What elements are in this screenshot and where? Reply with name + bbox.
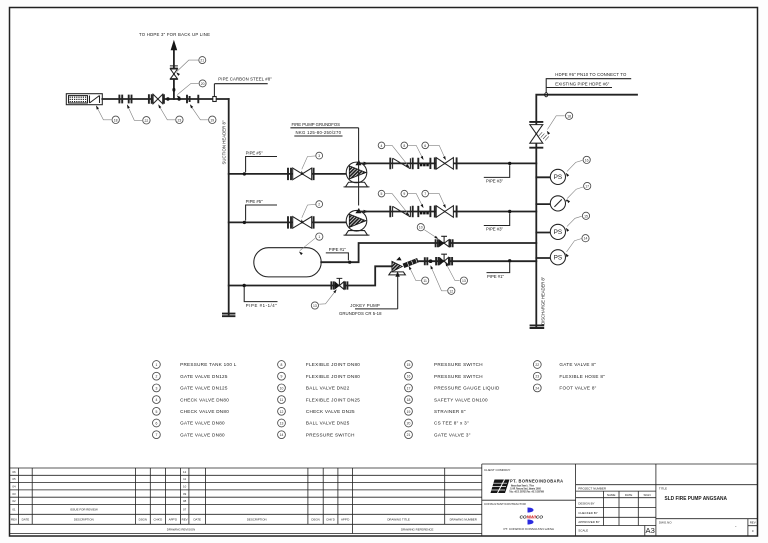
svg-text:7: 7 (155, 433, 157, 437)
blind flange bottom (222, 314, 235, 317)
svg-text:CHK'D: CHK'D (326, 518, 335, 522)
svg-text:CS TEE 8" x 3": CS TEE 8" x 3" (434, 421, 469, 426)
svg-text:CLIENT COMPANY: CLIENT COMPANY (484, 468, 510, 472)
svg-text:3: 3 (318, 154, 320, 158)
svg-text:5: 5 (155, 410, 157, 414)
flexible joint 8 (418, 158, 430, 169)
svg-text:6: 6 (155, 421, 157, 425)
label circle 12 (448, 287, 455, 294)
pipe jockey suction (229, 266, 391, 285)
junction dot (7)/header (508, 210, 511, 213)
svg-text:DWG.NO: DWG.NO (659, 521, 672, 525)
svg-text:DATE: DATE (625, 493, 633, 497)
pipe supply line (102, 98, 228, 100)
svg-text:HDPE #6" PN10 TO CONNECT TO: HDPE #6" PN10 TO CONNECT TO (555, 72, 627, 77)
coupling pair A (119, 95, 122, 104)
svg-text:09: 09 (183, 492, 187, 496)
union bars (187, 95, 198, 103)
legend item 24 (533, 384, 541, 392)
pipe discharge header (536, 95, 637, 327)
svg-text:PIPE #1": PIPE #1" (487, 274, 504, 279)
legend item 17 (405, 384, 413, 392)
legend item 15 (405, 361, 413, 369)
svg-text:GATE VALVE DN80: GATE VALVE DN80 (180, 421, 225, 426)
svg-text:CHECK VALVE DN25: CHECK VALVE DN25 (306, 409, 355, 414)
svg-text:GATE VALVE DN125: GATE VALVE DN125 (180, 386, 228, 391)
svg-text:13: 13 (313, 304, 317, 308)
svg-text:10: 10 (419, 226, 423, 230)
gate valve (supply) (149, 94, 164, 103)
svg-text:EXISTING PIPE HDPE #6": EXISTING PIPE HDPE #6" (555, 81, 609, 86)
label circle 4 (378, 142, 385, 149)
legend item 4 (153, 396, 161, 404)
svg-text:12: 12 (449, 289, 453, 293)
svg-text:PRESSURE SWITCH: PRESSURE SWITCH (434, 374, 483, 379)
flow arrows (3) (355, 160, 361, 165)
svg-text:PS: PS (554, 174, 563, 181)
svg-text:PRESSURE TANK 100 L: PRESSURE TANK 100 L (180, 362, 237, 367)
svg-text:5: 5 (381, 192, 383, 196)
legend item 11 (278, 396, 286, 404)
svg-text:11: 11 (280, 398, 284, 402)
svg-text:7: 7 (424, 192, 426, 196)
svg-text:Menara Karya Tower Lt. 7 Floor: Menara Karya Tower Lt. 7 Floor (511, 484, 534, 487)
svg-text:PIPE #3": PIPE #3" (486, 227, 503, 232)
svg-text:17: 17 (407, 386, 411, 390)
svg-text:DATE: DATE (22, 518, 30, 522)
svg-text:2: 2 (155, 375, 157, 379)
svg-text:DRAWING REFERENCE: DRAWING REFERENCE (401, 527, 434, 531)
label circle 6 (422, 142, 429, 149)
gate valve 21 (3in, vertical) (170, 66, 178, 79)
svg-text:FLEXIBLE JOINT DN25: FLEXIBLE JOINT DN25 (306, 397, 360, 402)
svg-text:22: 22 (535, 363, 539, 367)
legend item 7 (153, 431, 161, 439)
svg-text:SAFETY VALVE DN100: SAFETY VALVE DN100 (434, 397, 488, 402)
legend item 10 (278, 384, 286, 392)
svg-text:JOKEY PUMP: JOKEY PUMP (350, 303, 380, 308)
svg-text:24: 24 (535, 386, 539, 390)
svg-text:20: 20 (407, 421, 411, 425)
svg-text:12: 12 (183, 470, 187, 474)
svg-text:02: 02 (12, 499, 16, 503)
svg-text:PIPE #1": PIPE #1" (329, 247, 346, 252)
svg-text:SLD FIRE PUMP ANGSANA: SLD FIRE PUMP ANGSANA (665, 496, 728, 502)
svg-text:20: 20 (201, 82, 205, 86)
pressure switch 16 (536, 176, 550, 178)
label circle 3 (316, 152, 323, 159)
svg-text:05: 05 (12, 477, 16, 481)
label circle 11 (422, 277, 429, 284)
gate valve 3 (DN125) (288, 168, 314, 180)
svg-text:PRESSURE SWITCH: PRESSURE SWITCH (434, 362, 483, 367)
pipe suction line (2) (229, 221, 347, 223)
legend item 23 (533, 372, 541, 380)
title block right (482, 464, 758, 536)
svg-text:CHECK VALVE DN80: CHECK VALVE DN80 (180, 397, 229, 402)
coupling pair B (129, 95, 132, 104)
check valve 5 (390, 206, 412, 218)
svg-text:FIRE PUMP GRUNDFOS: FIRE PUMP GRUNDFOS (292, 122, 341, 127)
pressure tank 1 (254, 248, 321, 277)
label circle 10 (417, 224, 424, 231)
label circle 15 (582, 212, 589, 219)
gate valve 2 (DN125) (288, 216, 314, 228)
svg-text:14: 14 (584, 237, 588, 241)
svg-text:23: 23 (178, 118, 182, 122)
svg-text:PIPE CARBON STEEL #8": PIPE CARBON STEEL #8" (218, 77, 272, 82)
svg-text:TITLE: TITLE (659, 487, 667, 491)
pipe suction header riser (228, 99, 230, 315)
consultant logo CONWICO (528, 508, 534, 513)
svg-text:TO HDPE 3" FOR BACK UP LINE: TO HDPE 3" FOR BACK UP LINE (139, 32, 210, 37)
svg-text:6: 6 (424, 144, 426, 148)
svg-text:9: 9 (403, 192, 405, 196)
svg-text:CHK'D: CHK'D (154, 518, 163, 522)
svg-text:SIGN: SIGN (644, 493, 651, 497)
label circle 7 (422, 190, 429, 197)
junction oval top (545, 93, 548, 97)
svg-text:ISSUE FOR REVIEW: ISSUE FOR REVIEW (70, 508, 98, 512)
junction dot (6)/header (508, 162, 511, 165)
svg-text:DSGN: DSGN (311, 518, 319, 522)
svg-text:8: 8 (403, 144, 405, 148)
svg-text:DISCHARGE HEADER 8": DISCHARGE HEADER 8" (540, 276, 545, 324)
legend item 9 (278, 372, 286, 380)
svg-text:PT. BORNEOINDOBARA: PT. BORNEOINDOBARA (510, 479, 564, 484)
svg-text:07: 07 (183, 508, 187, 512)
svg-text:19: 19 (407, 410, 411, 414)
svg-text:PIPE #3": PIPE #3" (486, 179, 503, 184)
pressure gauge 17 (536, 203, 550, 205)
label circle 22 (143, 117, 150, 124)
svg-text:04: 04 (12, 485, 16, 489)
svg-text:REV: REV (11, 518, 17, 522)
svg-text:APP'D: APP'D (169, 518, 177, 522)
svg-text:01: 01 (12, 508, 16, 512)
svg-text:16: 16 (585, 158, 589, 162)
svg-text:06: 06 (12, 470, 16, 474)
pressure switch 15 (536, 232, 550, 234)
svg-text:18: 18 (114, 118, 118, 122)
svg-text:PT. CONWICO KONSULTAN wIKSA: PT. CONWICO KONSULTAN wIKSA (504, 527, 555, 531)
svg-text:2: 2 (318, 203, 320, 207)
ball valve 13 (jockey suction) (331, 281, 347, 289)
svg-text:PIPE #5": PIPE #5" (246, 199, 263, 204)
svg-text:GRUNDFOS CR 5-18: GRUNDFOS CR 5-18 (339, 311, 382, 316)
legend item 16 (405, 372, 413, 380)
svg-text:DESCRIPTION: DESCRIPTION (74, 518, 94, 522)
pipe backup branch 3in (173, 50, 175, 99)
label circle 21 (199, 57, 206, 64)
fire pump (2) (346, 210, 367, 231)
svg-text:CONSULTANT/CONTRACTOR: CONSULTANT/CONTRACTOR (484, 502, 527, 506)
client logo BIB (491, 480, 510, 494)
label circle 13c (460, 277, 467, 284)
pipe discharge line (5) (360, 211, 536, 213)
label circle 17 (584, 182, 591, 189)
svg-text:APPROVED BY: APPROVED BY (578, 520, 600, 524)
pipe suction line (3) (229, 173, 347, 175)
legend item 1 (153, 361, 161, 369)
svg-text:GATE VALVE 8": GATE VALVE 8" (559, 362, 596, 367)
check valve 12 (425, 257, 428, 265)
legend item 13 (278, 419, 286, 427)
svg-text:3: 3 (155, 386, 157, 390)
legend item 14 (278, 431, 286, 439)
svg-text:9: 9 (281, 375, 283, 379)
svg-text:11: 11 (183, 477, 186, 481)
svg-text:18: 18 (407, 398, 411, 402)
svg-text:PRESSURE SWITCH: PRESSURE SWITCH (306, 432, 355, 437)
flexible joint 11 (403, 258, 419, 268)
svg-text:17: 17 (585, 184, 589, 188)
svg-text:10: 10 (183, 485, 187, 489)
svg-text:4: 4 (381, 144, 383, 148)
svg-text:FLEXIBLE JOINT DN80: FLEXIBLE JOINT DN80 (306, 374, 360, 379)
legend item 2 (153, 372, 161, 380)
svg-text:10: 10 (280, 386, 284, 390)
svg-text:DRAWING REVISION: DRAWING REVISION (167, 527, 195, 531)
svg-text:21: 21 (200, 59, 204, 63)
svg-text:GATE VALVE DN80: GATE VALVE DN80 (180, 432, 225, 437)
svg-text:A3: A3 (646, 526, 655, 535)
svg-text:16: 16 (407, 375, 411, 379)
legend item 12 (278, 407, 286, 415)
svg-text:15: 15 (407, 363, 411, 367)
blind flange header bottom (530, 325, 545, 328)
svg-text:DATE: DATE (193, 518, 201, 522)
svg-text:Jl. HR. Rasuna Said, Jakarta 1: Jl. HR. Rasuna Said, Jakarta 12950 (510, 487, 542, 490)
label circle 23 (176, 116, 183, 123)
svg-text:15: 15 (584, 214, 588, 218)
svg-text:03: 03 (12, 492, 16, 496)
label circle 9 (401, 190, 408, 197)
svg-text:STRAINER 8": STRAINER 8" (434, 409, 466, 414)
svg-text:DESIGN BY: DESIGN BY (578, 501, 594, 505)
jockey pump (392, 261, 402, 271)
label circle 5 (378, 190, 385, 197)
svg-text:08: 08 (183, 499, 187, 503)
label circle 13a (311, 302, 318, 309)
svg-text:PS: PS (554, 229, 563, 236)
svg-text:1: 1 (318, 235, 320, 239)
revision table (10, 468, 482, 524)
label circle 20 (cs tee) (199, 80, 206, 87)
pipe tank outlet (321, 243, 536, 262)
flange to riser (pipe carbon steel) (213, 97, 216, 102)
svg-text:PIPE #5": PIPE #5" (246, 150, 263, 155)
gate valve 7 (434, 206, 436, 218)
legend item 21 (405, 431, 413, 439)
pipe jockey discharge (419, 260, 536, 262)
svg-text:DESCRIPTION: DESCRIPTION (247, 518, 267, 522)
flow arrows (2) (355, 208, 361, 213)
svg-text:CHECKED BY: CHECKED BY (578, 511, 598, 515)
svg-text:CHECK VALVE DN80: CHECK VALVE DN80 (180, 409, 229, 414)
ball valve 10 (436, 239, 453, 247)
label circle 19 (209, 116, 216, 123)
svg-text:23: 23 (535, 375, 539, 379)
svg-text:Telp: +62 21 2557621 Fax: +62: Telp: +62 21 2557621 Fax: +62 21 2557600 (509, 491, 544, 493)
svg-text:11: 11 (423, 279, 427, 283)
svg-text:8: 8 (281, 363, 283, 367)
svg-text:PRESSURE GAUGE LIQUID: PRESSURE GAUGE LIQUID (434, 386, 500, 391)
svg-text:18: 18 (567, 114, 571, 118)
legend item 3 (153, 384, 161, 392)
svg-text:13: 13 (280, 421, 284, 425)
pipe discharge line (4) (360, 162, 536, 164)
svg-text:4: 4 (155, 398, 157, 402)
water meter (66, 94, 102, 105)
svg-text:FLEXIBLE HOSE 8": FLEXIBLE HOSE 8" (559, 374, 605, 379)
svg-text:21: 21 (407, 433, 411, 437)
legend item 8 (278, 361, 286, 369)
check valve 4 (390, 158, 412, 170)
legend item 6 (153, 419, 161, 427)
svg-text:DSGN: DSGN (139, 518, 147, 522)
svg-text:1: 1 (155, 363, 157, 367)
flow arrow up (171, 40, 178, 50)
label circle 18 (meter) (112, 116, 119, 123)
svg-text:14: 14 (280, 433, 284, 437)
svg-text:12: 12 (280, 410, 284, 414)
svg-text:GATE VALVE DN125: GATE VALVE DN125 (180, 374, 228, 379)
svg-text:NKG 125-80-250/270: NKG 125-80-250/270 (296, 130, 342, 135)
legend item 19 (405, 407, 413, 415)
svg-text:DRAWING NUMBER: DRAWING NUMBER (450, 518, 477, 522)
svg-text:REV: REV (182, 518, 188, 522)
svg-text:BALL VALVE DN22: BALL VALVE DN22 (306, 386, 350, 391)
junction dots on supply (166, 97, 169, 100)
svg-text:FOOT VALVE 8": FOOT VALVE 8" (559, 386, 596, 391)
junction dot jockey/header (508, 259, 511, 262)
svg-text:FLEXIBLE JOINT DN80: FLEXIBLE JOINT DN80 (306, 362, 360, 367)
svg-text:SCALE: SCALE (578, 528, 588, 532)
label circle 18b (header valve) (566, 112, 573, 119)
svg-text:22: 22 (145, 119, 149, 123)
svg-text:SUCTION HEADER 8": SUCTION HEADER 8" (221, 120, 226, 164)
flexible joint 9 (418, 206, 430, 217)
svg-text:BALL VALVE DN25: BALL VALVE DN25 (306, 421, 350, 426)
label circle 8 (401, 142, 408, 149)
gate valve 6 (434, 157, 436, 169)
ball valve 13b (436, 257, 452, 265)
legend item 5 (153, 407, 161, 415)
legend item 22 (533, 361, 541, 369)
label circle 1 (316, 233, 323, 240)
legend item 20 (405, 419, 413, 427)
gate valve 22 on header (vertical, hatched) (529, 122, 543, 148)
label circle 2 (316, 201, 323, 208)
svg-text:NAME: NAME (607, 493, 615, 497)
label circle 16 (583, 156, 590, 163)
text pipe 1-1/4in (244, 287, 277, 302)
svg-text:APP'D: APP'D (341, 518, 349, 522)
svg-text:13: 13 (462, 279, 466, 283)
pressure switch 14 (536, 257, 550, 259)
svg-text:REV: REV (750, 521, 756, 525)
svg-text:19: 19 (210, 118, 214, 122)
junction dot on branch (172, 88, 175, 92)
legend item 18 (405, 396, 413, 404)
svg-text:PS: PS (554, 255, 563, 262)
fire pump (3) (346, 162, 367, 183)
svg-text:GATE VALVE 3": GATE VALVE 3" (434, 432, 471, 437)
svg-text:CONWICO: CONWICO (520, 515, 544, 520)
svg-text:PROJECT NUMBER: PROJECT NUMBER (578, 487, 607, 491)
label circle 14 (582, 235, 589, 242)
svg-text:PIPE #1-1/4": PIPE #1-1/4" (246, 303, 277, 308)
svg-text:DRAWING TITLE: DRAWING TITLE (387, 518, 410, 522)
